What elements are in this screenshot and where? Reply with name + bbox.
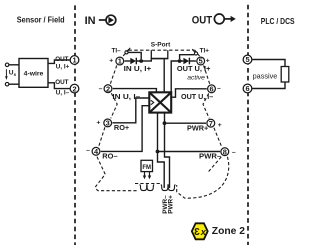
svg-text:+: + [218, 122, 222, 129]
load resistor (passive input) [281, 67, 289, 83]
PLC zone terminal 5 [243, 55, 252, 64]
svg-text:+: + [96, 119, 100, 126]
input chevron marker on converter [151, 100, 154, 104]
svg-text:PWR–: PWR– [199, 152, 221, 161]
svg-text:4-wire: 4-wire [24, 71, 44, 78]
wire: PLC terminal 5 to load resistor [252, 60, 285, 67]
zone boundary dashed line right (device | PLC/DCS) [247, 5, 249, 245]
DIN-rail bus boundary dashed [135, 183, 161, 185]
svg-text:3: 3 [106, 119, 110, 128]
wire: load resistor to PLC terminal 6 [252, 82, 285, 89]
bus socket 3 [161, 185, 169, 191]
FM bus arrow right [148, 172, 151, 180]
node A (junction after D1) [139, 59, 143, 63]
PWR+ rail wire [165, 122, 207, 124]
wire: 4-wire box to zone terminal 1 [48, 60, 70, 63]
svg-text:PWR+: PWR+ [187, 123, 208, 132]
PWR- rail wire [158, 151, 221, 153]
svg-text:active: active [187, 75, 205, 82]
S-Port dashed rail [129, 49, 195, 51]
wire: S-Port stem to converter [163, 59, 165, 92]
svg-text:+: + [109, 58, 113, 65]
isolation dashes terminal 6 to 7 zigzag [203, 93, 209, 118]
svg-text:6: 6 [209, 85, 213, 94]
svg-text:–: – [217, 85, 221, 92]
bus socket 1 [140, 185, 148, 191]
TI- test socket [125, 48, 130, 54]
svg-text:TI+: TI+ [200, 48, 210, 55]
sensor supply terminal upper (open circle) [5, 63, 9, 67]
svg-text:IN: IN [85, 15, 96, 27]
converter block U1 (square with X) [149, 92, 171, 112]
wire: lower supply terminal to 4-wire box [9, 83, 19, 85]
wire: converter bottom line A to PWR- rail and bus socket [158, 113, 165, 188]
node on PWR- rail [156, 150, 160, 154]
device terminal 2 [104, 84, 112, 93]
wire: converter to terminal 6 [171, 89, 207, 97]
S-Port connector plug [151, 50, 169, 61]
svg-text:7: 7 [209, 119, 213, 128]
wire: diode D2 to terminal 5 [189, 60, 196, 62]
wire: converter to output node [171, 61, 183, 92]
node on PWR+ rail [163, 121, 167, 125]
device terminal 1 [116, 57, 124, 66]
PLC zone terminal 6 [243, 84, 252, 93]
isolation dashes below terminal 4 to bus [96, 157, 139, 191]
svg-text:OUT U, I–: OUT U, I– [181, 94, 213, 101]
wire: terminal 1 to diode D1 [125, 60, 131, 62]
sensor supply terminal lower (open circle) [5, 82, 9, 86]
svg-text:2: 2 [106, 84, 110, 93]
svg-text:2: 2 [72, 84, 76, 93]
zone pass-through terminal 2 [70, 84, 79, 93]
svg-text:OUT: OUT [55, 79, 68, 86]
svg-text:Us: Us [9, 69, 17, 76]
svg-text:1: 1 [118, 57, 122, 66]
wire: TI- test socket loop to node after diode [128, 52, 141, 59]
wire: upper supply terminal to 4-wire box [9, 64, 19, 66]
svg-text:PLC / DCS: PLC / DCS [261, 17, 295, 26]
svg-text:5: 5 [199, 57, 203, 66]
svg-text:1: 1 [72, 56, 76, 65]
svg-text:passive: passive [253, 71, 278, 80]
isolation dashes terminal 2 to 3 zigzag [111, 93, 117, 118]
svg-text:U, I+: U, I+ [56, 63, 70, 70]
device terminal 4 [92, 147, 100, 156]
svg-text:+: + [206, 58, 210, 65]
device terminal 7 [207, 119, 215, 128]
isolation dashes terminal 5 to 6 [204, 65, 210, 84]
svg-text:6: 6 [245, 84, 249, 93]
wire: TI+ test socket loop to node before diode D2 [180, 55, 195, 59]
svg-text:Zone 2: Zone 2 [212, 226, 245, 237]
device terminal 8 [221, 147, 229, 156]
isolation dashes TI+ to terminal 5 [194, 50, 199, 56]
bus socket 2 [146, 185, 154, 191]
svg-text:–: – [86, 147, 90, 154]
node B (junction before D2) [178, 59, 182, 63]
FM bus arrow left [143, 172, 146, 180]
isolation dashed arc terminal 8 to bus [177, 157, 229, 198]
svg-text:U, I–: U, I– [56, 89, 70, 96]
OUT direction symbol (circle with outward arrow) [214, 14, 235, 24]
isolation dashes TI- to terminal 1 [123, 49, 129, 56]
svg-text:Sensor / Field: Sensor / Field [17, 16, 65, 25]
svg-text:IN U, I+: IN U, I+ [124, 66, 152, 73]
Ex hexagon logo [192, 223, 208, 239]
Us voltage arrow (down) [5, 69, 8, 80]
wire: terminal 4 to converter left [101, 106, 150, 152]
FM (fault monitoring) box [141, 160, 153, 171]
diode D1 [130, 58, 136, 65]
svg-text:8: 8 [223, 147, 227, 156]
svg-text:–: – [232, 149, 236, 156]
svg-text:5: 5 [245, 55, 249, 64]
wire: diode D1 to input node [136, 60, 152, 62]
wire: 4-wire box to zone terminal 2 [48, 83, 70, 89]
svg-text:TI–: TI– [112, 48, 122, 55]
wire: terminal 2 to converter top [113, 89, 157, 93]
svg-text:OUT: OUT [192, 15, 213, 27]
svg-text:RO–: RO– [102, 152, 117, 161]
svg-text:RO+: RO+ [114, 123, 129, 132]
isolation dashes terminal 8 down-left [207, 157, 221, 173]
diode D2 [183, 58, 189, 65]
svg-text:FM: FM [142, 165, 151, 171]
isolation dashes terminal 7 to 8 [214, 128, 222, 147]
device terminal 6 [208, 85, 216, 94]
4-wire transmitter box [19, 59, 48, 88]
svg-text:–: – [99, 85, 103, 92]
device terminal 3 [104, 119, 112, 128]
isolation dashes terminal 1 to 2 [110, 65, 117, 84]
svg-text:3: 3 [194, 227, 200, 238]
svg-text:x: x [200, 226, 207, 237]
isolation dashes terminal 3 to 4 [99, 127, 105, 147]
device terminal 5 [197, 57, 205, 66]
svg-text:OUT: OUT [55, 56, 68, 63]
wire: terminal 3 to converter left [113, 98, 150, 123]
svg-text:S-Port: S-Port [151, 41, 171, 48]
zone boundary dashed line left (Sensor/Field | device) [74, 5, 76, 245]
TI+ test socket [192, 49, 197, 55]
wire: converter bottom line B to PWR+ rail and bus socket [165, 113, 170, 188]
bus socket 4 [167, 185, 175, 191]
svg-text:PWR+: PWR+ [168, 195, 175, 214]
IN direction symbol (circle with inward arrow) [99, 15, 116, 25]
zone pass-through terminal 1 [70, 56, 79, 65]
